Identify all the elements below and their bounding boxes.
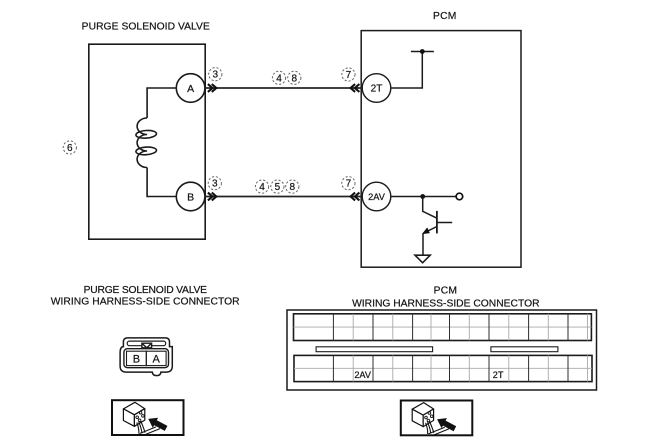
callout 6 bbox=[63, 141, 76, 154]
callout 7 bottom bbox=[342, 177, 355, 190]
connector cube bbox=[123, 402, 144, 426]
pcm connector grid lines bottom bbox=[294, 355, 592, 381]
svg-text:WIRING HARNESS-SIDE CONNECTOR: WIRING HARNESS-SIDE CONNECTOR bbox=[352, 298, 539, 309]
cavity B bbox=[127, 351, 147, 365]
svg-text:7: 7 bbox=[346, 179, 352, 190]
svg-text:WIRING HARNESS-SIDE CONNECTOR: WIRING HARNESS-SIDE CONNECTOR bbox=[51, 297, 240, 308]
wire emitter to ground bbox=[422, 233, 424, 255]
wire A to 2T bbox=[205, 87, 361, 89]
svg-text:8: 8 bbox=[292, 73, 298, 84]
power rail bar bbox=[411, 51, 434, 53]
callout 7 top bbox=[342, 68, 355, 81]
svg-text:B: B bbox=[187, 191, 194, 203]
power rail junction dot bbox=[420, 49, 425, 54]
output terminal open circle bbox=[456, 193, 463, 200]
svg-text:3: 3 bbox=[213, 70, 219, 81]
svg-text:B: B bbox=[133, 353, 140, 365]
solenoid coil bbox=[136, 118, 157, 168]
connector top bar bbox=[127, 341, 166, 346]
wire terminal A to coil bbox=[147, 88, 178, 118]
svg-text:A: A bbox=[187, 83, 194, 95]
svg-text:7: 7 bbox=[346, 70, 352, 81]
svg-text:2T: 2T bbox=[493, 370, 504, 380]
connector lock tab bbox=[142, 343, 152, 348]
svg-text:6: 6 bbox=[67, 143, 73, 154]
svg-text:PCM: PCM bbox=[433, 11, 456, 22]
svg-text:2AV: 2AV bbox=[368, 192, 386, 202]
pcm connector top grid frame bbox=[294, 314, 592, 341]
wire coil to terminal B bbox=[147, 168, 178, 197]
svg-text:PURGE SOLENOID VALVE: PURGE SOLENOID VALVE bbox=[82, 22, 210, 33]
ground bbox=[415, 255, 430, 263]
chevrons at terminal 2AV bbox=[351, 193, 360, 201]
chevrons at terminal 2T bbox=[351, 84, 360, 92]
svg-text:8: 8 bbox=[290, 182, 296, 193]
pcm connector grid lines top bbox=[294, 314, 592, 341]
purge solenoid valve harness connector drawing bbox=[120, 338, 172, 376]
terminal 2T bbox=[362, 74, 391, 103]
black arrow bbox=[148, 418, 167, 431]
connector outer shell bbox=[120, 338, 172, 376]
callout 4 bottom bbox=[255, 180, 268, 193]
callout 8 top bbox=[288, 71, 301, 84]
PCM harness connector drawing bbox=[287, 310, 597, 390]
svg-text:PURGE SOLENOID VALVE: PURGE SOLENOID VALVE bbox=[84, 285, 208, 296]
wire 2AV to output node bbox=[391, 196, 456, 198]
wire 2T to power rail bbox=[391, 52, 423, 89]
connector icon box right bbox=[401, 401, 473, 436]
svg-text:PCM: PCM bbox=[434, 285, 457, 296]
PCM box bbox=[361, 31, 521, 268]
svg-text:3: 3 bbox=[212, 179, 218, 190]
terminal B bbox=[176, 182, 205, 211]
transistor Q1 bbox=[422, 197, 452, 235]
callout 5 bottom bbox=[271, 180, 284, 193]
connector icon box left bbox=[112, 400, 184, 435]
wires bbox=[137, 421, 160, 435]
svg-text:2T: 2T bbox=[371, 84, 383, 95]
svg-text:2AV: 2AV bbox=[354, 370, 372, 380]
terminal 2AV bbox=[362, 182, 391, 211]
pcm connector bottom grid frame bbox=[294, 355, 592, 381]
svg-text:A: A bbox=[153, 353, 161, 365]
wire B to 2AV bbox=[205, 196, 361, 198]
chevrons at terminal B bbox=[208, 193, 216, 201]
connector inner housing bbox=[124, 349, 169, 368]
cube pins bbox=[136, 411, 144, 421]
svg-text:4: 4 bbox=[276, 73, 282, 84]
pcm connector outer frame bbox=[287, 310, 597, 390]
callout 3 top bbox=[209, 68, 222, 81]
purge solenoid valve box bbox=[89, 44, 205, 239]
chevrons at terminal A bbox=[208, 84, 216, 92]
cavity A bbox=[146, 351, 166, 365]
svg-text:5: 5 bbox=[275, 182, 281, 193]
node junction dot bbox=[420, 194, 425, 199]
terminal A bbox=[176, 74, 205, 103]
callout 4 top bbox=[272, 71, 285, 84]
pcm connector key slots bbox=[316, 347, 558, 352]
svg-text:4: 4 bbox=[259, 182, 265, 193]
callout 8 bottom bbox=[286, 180, 299, 193]
callout 3 bottom bbox=[208, 177, 221, 190]
